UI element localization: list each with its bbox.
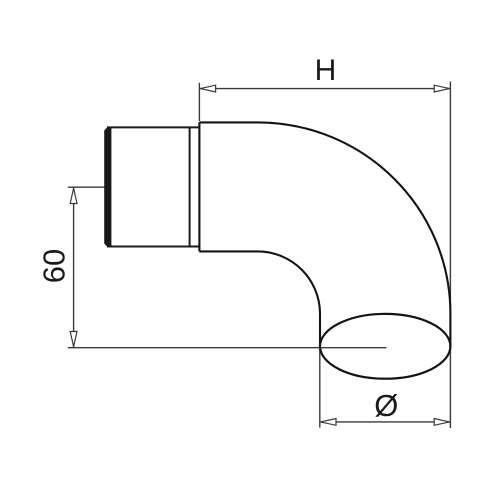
svg-text:60: 60 — [37, 249, 72, 283]
svg-text:H: H — [315, 54, 337, 87]
svg-text:Ø: Ø — [374, 388, 398, 423]
